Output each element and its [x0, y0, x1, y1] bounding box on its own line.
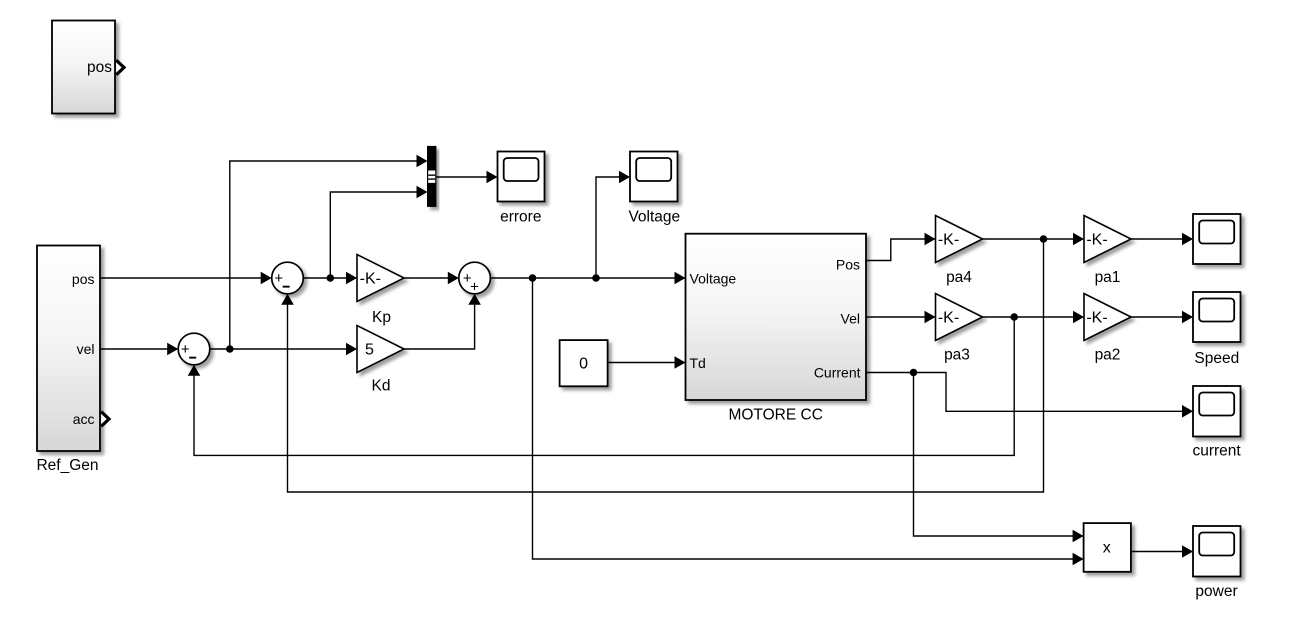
label Kd: [372, 378, 391, 395]
label errore: [500, 209, 541, 226]
svg-text:5: 5: [365, 341, 374, 358]
wire Ref_Gen vel -> sum S1: [100, 343, 178, 356]
gain pa2: [1084, 294, 1131, 341]
label pa1: [1095, 269, 1121, 286]
svg-text:x: x: [1103, 540, 1111, 557]
wire Vel out -> gain pa3: [866, 311, 936, 324]
label current: [1192, 443, 1241, 460]
product block x: [1084, 523, 1131, 572]
scope power: [1193, 526, 1241, 577]
wire pa1 -> scope1: [1131, 233, 1193, 246]
svg-text:Ref_Gen: Ref_Gen: [36, 457, 98, 474]
svg-text:Kd: Kd: [372, 378, 391, 395]
gain Kp: [357, 255, 404, 302]
label pa3: [944, 347, 970, 364]
acc output chevron (unconnected): [101, 412, 109, 427]
svg-text:pa3: pa3: [944, 347, 970, 364]
wire error -> mux input2: [330, 186, 427, 278]
junction dot pa4 out: [1040, 235, 1048, 243]
svg-text:Vel: Vel: [841, 311, 860, 327]
wire pa4 out -> gain pa1: [983, 233, 1085, 246]
svg-text:current: current: [1192, 443, 1241, 460]
block MOTORE CC: [686, 234, 867, 400]
svg-text:Pos: Pos: [836, 257, 860, 273]
label pa2: [1095, 347, 1121, 364]
mux: [428, 146, 436, 206]
wire Pos out -> gain pa4: [866, 233, 936, 261]
svg-text:pos: pos: [72, 271, 95, 287]
wire pa3 out -> gain pa2: [983, 311, 1085, 324]
svg-text:-K-: -K-: [1086, 231, 1107, 248]
svg-text:vel: vel: [77, 341, 95, 357]
sum S1 (vel error): [178, 333, 210, 365]
label pa4: [946, 269, 972, 286]
wire pa2 -> scope Speed: [1131, 311, 1193, 324]
wire Ref_Gen pos -> sum S2: [100, 272, 272, 285]
svg-text:-K-: -K-: [938, 231, 959, 248]
block Ref_Gen: [37, 246, 100, 452]
wire Kd out -> sum S3 bottom: [404, 294, 481, 349]
svg-text:pa1: pa1: [1095, 269, 1121, 286]
svg-text:0: 0: [579, 355, 588, 372]
wire constant -> Td: [608, 356, 686, 369]
sum S3 (Kp+Kd): [459, 262, 491, 294]
wire voltage -> product input2: [533, 278, 1084, 565]
wire sum S2 out -> gain Kp: [303, 272, 357, 285]
wire current -> product input1: [914, 373, 1084, 543]
scope errore: [498, 152, 545, 202]
junction dot voltage->scope: [592, 274, 600, 282]
svg-text:+: +: [470, 278, 479, 295]
gain pa1: [1084, 216, 1131, 263]
junction dot error line: [327, 274, 335, 282]
wire vel -> mux input1: [230, 155, 428, 349]
scope Voltage: [630, 152, 678, 202]
svg-text:+: +: [181, 341, 190, 358]
gain pa4: [936, 216, 983, 263]
svg-text:-K-: -K-: [1086, 309, 1107, 326]
gain Kd: [357, 326, 404, 373]
svg-text:pa4: pa4: [946, 269, 972, 286]
svg-text:pa2: pa2: [1095, 347, 1121, 364]
svg-text:Kp: Kp: [372, 309, 391, 326]
scope Speed: [1193, 292, 1241, 342]
junction dot vel line: [226, 345, 234, 353]
svg-text:Voltage: Voltage: [628, 209, 680, 226]
wire mux out -> scope errore: [436, 171, 498, 184]
wire sum S3 -> MOTORE CC Voltage: [490, 272, 685, 285]
label Speed: [1194, 350, 1239, 367]
wire Current out -> scope current: [866, 373, 1193, 418]
wire pos feedback -> sum S2 bottom: [281, 239, 1043, 492]
svg-text:Speed: Speed: [1194, 350, 1239, 367]
output port chevron of pos subsystem: [116, 60, 124, 75]
sum S2 (pos error): [272, 262, 304, 294]
svg-text:+: +: [274, 270, 283, 287]
wire product -> scope power: [1131, 545, 1193, 558]
gain pa3: [936, 294, 983, 341]
label MOTORE CC: [728, 407, 822, 424]
svg-text:MOTORE CC: MOTORE CC: [728, 407, 822, 424]
wire Kp out -> sum S3: [404, 272, 459, 285]
svg-text:Voltage: Voltage: [690, 271, 737, 287]
svg-text:Td: Td: [690, 355, 706, 371]
svg-text:Current: Current: [814, 365, 861, 381]
svg-text:-K-: -K-: [360, 270, 381, 287]
label Ref_Gen: [36, 457, 98, 474]
label power: [1195, 583, 1237, 600]
scope current: [1193, 386, 1241, 437]
wire main -> Voltage scope (tap): [596, 171, 630, 278]
scope1 (unnamed, top right): [1193, 214, 1241, 264]
svg-text:errore: errore: [500, 209, 541, 226]
svg-text:pos: pos: [87, 59, 112, 76]
junction dot pa3 out: [1010, 313, 1018, 321]
junction dot current: [910, 369, 918, 377]
svg-text:acc: acc: [73, 411, 95, 427]
subsystem pos (top-left): [52, 21, 115, 114]
label Voltage: [628, 209, 680, 226]
svg-text:-K-: -K-: [938, 309, 959, 326]
junction dot voltage->product: [529, 274, 537, 282]
wire vel feedback -> sum S1 bottom: [188, 317, 1015, 455]
label Kp: [372, 309, 391, 326]
mux icon: [428, 171, 435, 183]
wire sum S1 out -> gain Kd: [210, 343, 357, 356]
svg-text:power: power: [1195, 583, 1237, 600]
constant 0: [560, 340, 608, 386]
